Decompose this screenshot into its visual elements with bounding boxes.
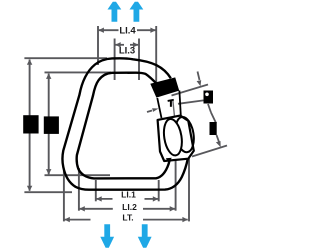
cyan up arrow 1 [108,2,122,22]
sleeve right face ellipse [173,116,196,154]
sleeve bottom edge extension line [192,146,227,157]
tofu label with dot (neck diameter) [204,91,214,104]
tofu label (sleeve diameter) [210,122,217,135]
dimension L1.1 left extension line [95,180,97,201]
dimension LT line right segment with arrow [143,219,188,221]
dimension L1.1 line left segment with arrow [96,198,112,200]
dimension L1.2 line left segment with arrow [80,208,113,210]
dimension LT right extension line [188,159,190,222]
diagonal neck-width extension line upper [172,85,209,96]
diagonal sleeve-diameter dimension line through tofu label [208,104,211,113]
thin line from T to sleeve [173,101,175,118]
small T mark below collar [167,99,173,102]
dimension L1.4 line left segment with arrow [99,29,119,31]
svg-text:LI.4: LI.4 [119,26,136,37]
dimension A vertical line with arrows [29,60,31,191]
cyan down arrow 2 [138,224,152,248]
tofu label square 1 on dimension A [23,115,38,133]
svg-text:LI.1: LI.1 [121,190,136,200]
dimension B (inner height) top extension line [45,71,112,73]
dimension L1.2 line right segment with arrow [143,208,175,210]
dimension A (outer height) bottom extension line [24,191,72,193]
diagonal neck-width dimension arrow upper [198,72,200,81]
dimension L1.2 left extension line [78,168,80,211]
dimension L1.4 right extension line [155,26,157,88]
tofu label square 2 on dimension B [44,116,59,133]
quick link body inner outline (hole) [77,73,170,179]
dimension L1.1 line right segment with arrow [145,198,159,200]
dimension L1.3 line with outward arrows [115,44,124,46]
svg-text:LT.: LT. [122,212,133,222]
diagonal neck-width extension line lower [178,100,204,103]
dimension B vertical line with arrows [48,74,50,175]
svg-text:LI.3: LI.3 [119,45,135,56]
quick link body outer outline [62,58,187,189]
cyan up arrow 2 [130,2,144,22]
svg-text:LI.2: LI.2 [122,202,137,212]
dimension LT line left segment with arrow [65,219,91,221]
threaded collar band (black) [150,77,179,97]
dimension L1.3 left extension line [114,39,116,81]
dimension B (inner height) bottom extension line [45,174,111,176]
screw neck left edge [157,98,161,118]
sleeve-diameter arrowhead pointing to sleeve bottom edge line [216,141,221,147]
sleeve left face ellipse [162,118,185,157]
dimension A (outer height) top extension line [24,57,107,59]
dimension L1.4 left extension line [97,26,99,65]
pinch where sleeve meets wire [166,158,172,163]
diagonal neck-width arrow lower-left pointing at neck edge [147,111,152,113]
sleeve nut outline [158,116,194,161]
dimension L1.4 line right segment with arrow [137,29,156,31]
screw neck right edge [179,91,180,116]
cyan down arrow 1 [100,224,114,248]
dimension L1.3 right extension line [138,39,140,81]
dimension L1.2 right extension line [175,160,177,211]
dimension LT left extension line [63,169,65,221]
dimension L1.1 right extension line [158,180,160,201]
